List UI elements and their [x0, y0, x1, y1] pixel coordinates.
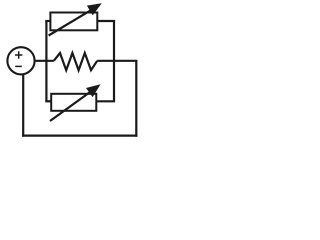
wire resistor to right edge — [97, 60, 137, 62]
variable resistor R2 arrowhead — [87, 3, 102, 15]
variable resistor R3 body — [51, 94, 96, 111]
wire top branch left stub — [45, 20, 50, 22]
wire bottom edge — [22, 135, 137, 137]
right rail wire — [113, 21, 115, 101]
wire right edge down — [135, 61, 137, 137]
wire top branch right stub — [97, 20, 115, 22]
variable resistor R2 body — [50, 13, 97, 31]
left rail wire — [45, 21, 47, 101]
V1 plus sign — [15, 51, 22, 58]
variable resistor R3 arrowhead — [86, 84, 101, 97]
wire source to resistor — [34, 60, 54, 62]
V1 minus sign — [15, 65, 22, 67]
wire left return up — [22, 74, 24, 137]
wire bottom branch left stub — [45, 100, 51, 102]
resistor R1 — [54, 53, 97, 70]
voltage source V1 — [7, 47, 34, 74]
wire bottom branch right stub — [96, 100, 115, 102]
variable resistor R3 arrow shaft — [50, 91, 92, 121]
variable resistor R2 arrow shaft — [49, 9, 93, 36]
